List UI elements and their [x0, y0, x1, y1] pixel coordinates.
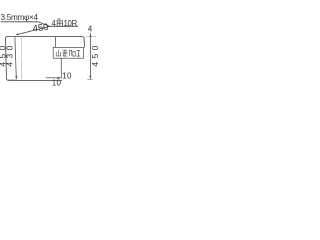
yamagata label box: [53, 47, 83, 58]
arrowhead of corner leader: [15, 33, 18, 35]
kanji ka: [69, 50, 75, 56]
plate bottom edge: [9, 79, 62, 81]
plate left edge: [6, 37, 9, 81]
bottom arrowhead right dim: [89, 76, 91, 80]
kanji kata: [62, 50, 67, 56]
svg-text:430: 430: [6, 42, 15, 66]
kanji kaku (angle) glyph: [57, 19, 63, 26]
dimension line 430 left (inner): [15, 37, 16, 78]
arrowhead pointing right at ridge: [57, 77, 61, 79]
svg-text:4: 4: [88, 25, 93, 34]
kanji kou: [76, 50, 80, 56]
left fold line (faint): [20, 38, 22, 80]
kanji yama: [56, 50, 61, 56]
ridge line lower segment: [60, 58, 62, 78]
leader slant of 3.5mm note: [38, 22, 50, 27]
background: [0, 0, 100, 100]
dimension line 450 right: [89, 33, 91, 79]
bottom arrowhead of 430: [15, 76, 17, 80]
top arrowhead right dim: [90, 33, 92, 37]
right extension tick top: [86, 36, 97, 38]
svg-text:10: 10: [52, 78, 62, 87]
svg-text:3.5mmφ×4: 3.5mmφ×4: [1, 13, 39, 22]
dim leader 10 horizontal: [46, 77, 61, 79]
plate top edge with rounded corners: [8, 37, 85, 48]
ridge line upper segment: [55, 37, 57, 48]
leader underline of 4kaku10R: [50, 25, 78, 27]
svg-text:10: 10: [62, 71, 72, 80]
svg-text:450: 450: [91, 42, 100, 66]
leader underline of 3.5mm note: [1, 21, 39, 23]
short inner ext line above bottom edge: [8, 78, 17, 80]
right extension tick bottom: [87, 78, 92, 80]
leader slant of 4kaku10R toward top-left corner: [17, 26, 50, 34]
